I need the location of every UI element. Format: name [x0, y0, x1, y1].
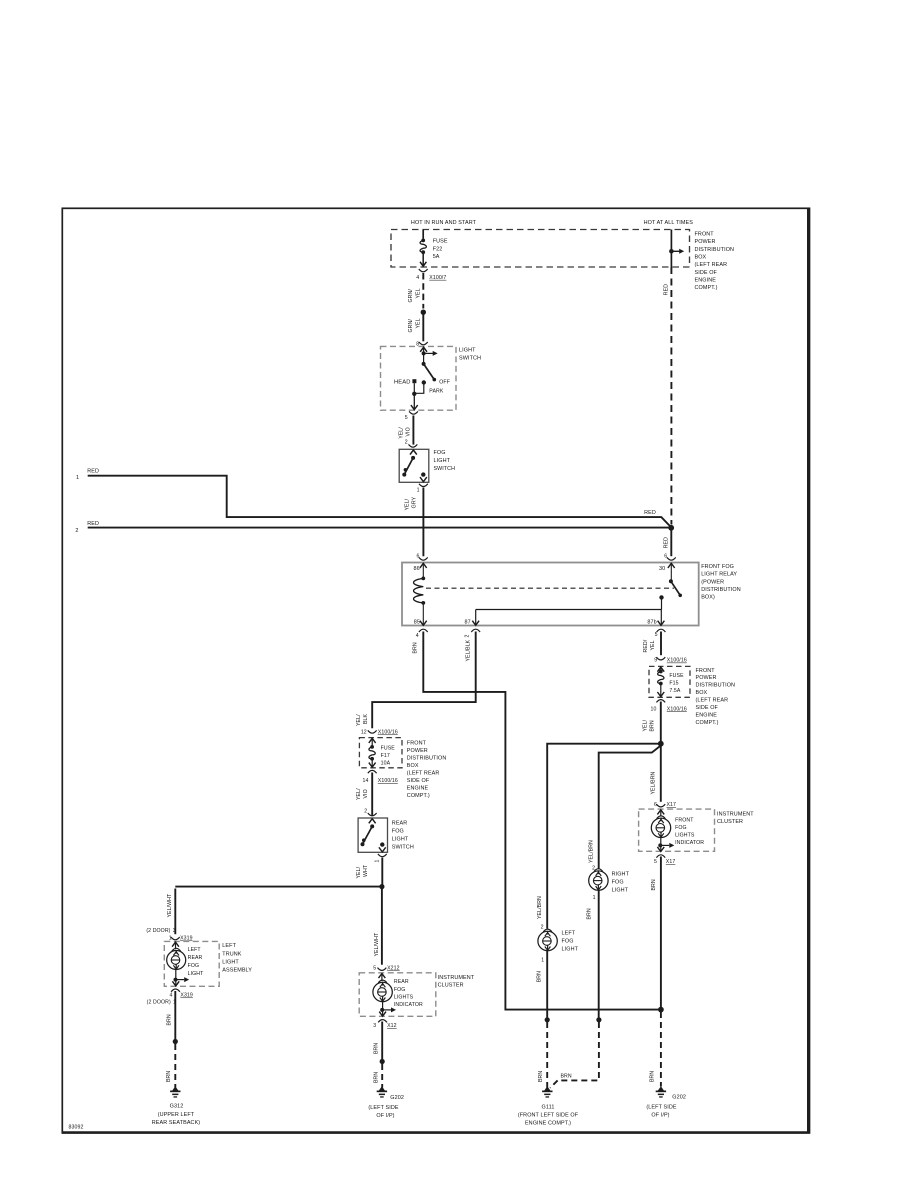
svg-text:GRN/: GRN/	[408, 289, 414, 303]
svg-text:G202: G202	[672, 1095, 686, 1101]
svg-text:5A: 5A	[433, 254, 440, 260]
svg-text:SWITCH: SWITCH	[459, 355, 481, 361]
svg-text:6: 6	[664, 553, 667, 559]
svg-text:87b: 87b	[647, 619, 656, 625]
svg-text:RED/: RED/	[643, 639, 649, 652]
svg-text:RED: RED	[644, 510, 656, 516]
svg-text:COMPT.): COMPT.)	[407, 793, 430, 799]
svg-text:LEFT: LEFT	[222, 943, 236, 949]
svg-text:LIGHT: LIGHT	[562, 947, 579, 953]
svg-text:RED: RED	[664, 537, 670, 548]
svg-text:BRN: BRN	[587, 908, 593, 919]
svg-text:FRONT: FRONT	[696, 668, 716, 674]
svg-text:GRY: GRY	[412, 496, 418, 508]
svg-text:BRN: BRN	[538, 1071, 544, 1082]
svg-text:(2 DOOR): (2 DOOR)	[146, 928, 170, 934]
svg-text:POWER: POWER	[696, 675, 717, 681]
svg-text:(POWER: (POWER	[701, 579, 724, 585]
svg-text:X319: X319	[180, 936, 193, 942]
svg-text:YEL/: YEL/	[398, 427, 404, 439]
svg-text:ASSEMBLY: ASSEMBLY	[222, 968, 252, 974]
svg-text:1: 1	[76, 475, 79, 481]
svg-text:BOX: BOX	[407, 763, 419, 769]
svg-text:BRN: BRN	[650, 1071, 656, 1082]
svg-text:LEFT: LEFT	[188, 947, 202, 953]
svg-text:SWITCH: SWITCH	[434, 466, 456, 472]
svg-text:(FRONT LEFT SIDE OF: (FRONT LEFT SIDE OF	[518, 1112, 579, 1118]
svg-text:INDICATOR: INDICATOR	[394, 1002, 423, 1008]
svg-text:YEL/BRN: YEL/BRN	[651, 771, 657, 794]
svg-text:2: 2	[405, 439, 408, 445]
svg-text:X100/16: X100/16	[378, 778, 398, 784]
svg-text:INSTRUMENT: INSTRUMENT	[717, 811, 754, 817]
svg-text:YEL/WHT: YEL/WHT	[167, 893, 173, 917]
svg-text:LIGHT: LIGHT	[612, 888, 629, 894]
svg-text:DISTRIBUTION: DISTRIBUTION	[407, 755, 447, 761]
svg-text:2: 2	[464, 635, 470, 638]
svg-text:BOX: BOX	[695, 255, 707, 261]
svg-text:(UPPER LEFT: (UPPER LEFT	[158, 1112, 195, 1118]
svg-text:OF I/P): OF I/P)	[651, 1112, 669, 1118]
svg-text:(LEFT REAR: (LEFT REAR	[695, 262, 728, 268]
svg-text:X212: X212	[387, 966, 400, 972]
svg-text:(LEFT SIDE: (LEFT SIDE	[646, 1104, 676, 1110]
svg-text:5: 5	[655, 632, 658, 638]
svg-text:G111: G111	[542, 1104, 555, 1110]
svg-text:HOT IN RUN AND START: HOT IN RUN AND START	[411, 220, 477, 226]
svg-text:RED: RED	[663, 284, 669, 295]
svg-text:86: 86	[414, 566, 420, 572]
svg-text:1: 1	[593, 895, 596, 901]
svg-text:RIGHT: RIGHT	[612, 872, 630, 878]
svg-text:YEL: YEL	[415, 288, 421, 298]
svg-text:DISTRIBUTION: DISTRIBUTION	[696, 683, 736, 689]
svg-text:BRN: BRN	[412, 642, 418, 653]
svg-text:FOG: FOG	[394, 987, 406, 993]
svg-text:2: 2	[75, 528, 78, 534]
svg-text:2: 2	[364, 808, 367, 814]
svg-text:BRN: BRN	[166, 1014, 172, 1025]
svg-text:POWER: POWER	[407, 748, 428, 754]
svg-text:LIGHTS: LIGHTS	[675, 832, 695, 838]
svg-text:COMPT.): COMPT.)	[696, 720, 719, 726]
svg-text:YEL: YEL	[650, 640, 656, 650]
svg-text:1: 1	[417, 488, 420, 494]
svg-text:LIGHT: LIGHT	[222, 959, 239, 965]
svg-text:4: 4	[416, 633, 419, 639]
svg-text:LIGHT: LIGHT	[459, 348, 476, 354]
svg-text:ENGINE: ENGINE	[695, 278, 717, 284]
svg-text:REAR: REAR	[392, 821, 408, 827]
svg-text:HOT AT ALL TIMES: HOT AT ALL TIMES	[644, 220, 694, 226]
svg-text:BRN: BRN	[650, 720, 656, 731]
svg-text:SIDE OF: SIDE OF	[695, 270, 718, 276]
svg-text:CLUSTER: CLUSTER	[438, 983, 464, 989]
svg-text:REAR: REAR	[188, 955, 203, 961]
svg-text:2: 2	[541, 924, 544, 930]
svg-text:TRUNK: TRUNK	[222, 951, 242, 957]
svg-text:10A: 10A	[381, 760, 391, 766]
svg-text:FOG: FOG	[188, 963, 200, 969]
svg-text:FUSE: FUSE	[381, 746, 396, 752]
svg-text:5: 5	[405, 415, 408, 421]
svg-text:87: 87	[465, 619, 471, 625]
svg-text:X100/16: X100/16	[667, 658, 687, 664]
svg-text:1: 1	[541, 958, 544, 964]
svg-text:LIGHT: LIGHT	[392, 837, 409, 843]
svg-text:FRONT FOG: FRONT FOG	[701, 564, 734, 570]
svg-text:LEFT: LEFT	[562, 931, 576, 937]
svg-text:REAR: REAR	[394, 979, 409, 985]
svg-text:30: 30	[659, 566, 665, 572]
svg-text:FUSE: FUSE	[669, 673, 684, 679]
svg-text:VIO: VIO	[363, 789, 369, 798]
svg-text:9: 9	[654, 658, 657, 664]
svg-text:DISTRIBUTION: DISTRIBUTION	[695, 247, 735, 253]
svg-text:X100/7: X100/7	[429, 275, 446, 281]
svg-text:BRN: BRN	[537, 971, 543, 982]
svg-text:F15: F15	[669, 681, 678, 687]
svg-text:BLK: BLK	[363, 713, 369, 724]
svg-text:X12: X12	[387, 1023, 397, 1029]
svg-text:ENGINE: ENGINE	[696, 713, 718, 719]
svg-text:83092: 83092	[69, 1125, 84, 1131]
svg-text:OFF: OFF	[439, 379, 450, 385]
svg-text:INSTRUMENT: INSTRUMENT	[438, 975, 475, 981]
svg-text:YEL/: YEL/	[356, 788, 362, 800]
svg-text:GRN/: GRN/	[408, 319, 414, 333]
svg-text:X100/16: X100/16	[378, 730, 398, 736]
svg-text:WHT: WHT	[363, 864, 369, 877]
svg-text:POWER: POWER	[695, 239, 716, 245]
svg-text:BRN: BRN	[166, 1071, 172, 1082]
svg-text:SWITCH: SWITCH	[392, 845, 414, 851]
svg-text:PARK: PARK	[429, 389, 444, 395]
svg-text:ENGINE: ENGINE	[407, 785, 429, 791]
svg-text:FOG: FOG	[612, 880, 624, 886]
svg-text:F22: F22	[433, 246, 443, 252]
svg-text:LIGHT RELAY: LIGHT RELAY	[701, 572, 737, 578]
svg-text:CLUSTER: CLUSTER	[717, 819, 743, 825]
svg-text:BOX): BOX)	[701, 595, 715, 601]
svg-text:4: 4	[170, 993, 173, 999]
svg-text:1: 1	[374, 860, 380, 863]
svg-text:DISTRIBUTION: DISTRIBUTION	[701, 587, 741, 593]
svg-text:G202: G202	[390, 1095, 404, 1101]
svg-text:FRONT: FRONT	[695, 232, 715, 238]
svg-text:BRN: BRN	[561, 1074, 572, 1080]
svg-text:(LEFT SIDE: (LEFT SIDE	[368, 1105, 398, 1111]
svg-text:SIDE OF: SIDE OF	[696, 705, 719, 711]
svg-text:YEL/: YEL/	[405, 498, 411, 510]
svg-text:FOG: FOG	[434, 450, 446, 456]
svg-text:FRONT: FRONT	[675, 817, 694, 823]
svg-text:7.5A: 7.5A	[669, 688, 681, 694]
svg-text:LIGHT: LIGHT	[434, 458, 451, 464]
svg-text:FOG: FOG	[675, 825, 687, 831]
svg-text:(2 DOOR): (2 DOOR)	[147, 1000, 171, 1006]
svg-text:G312: G312	[170, 1104, 184, 1110]
svg-text:X100/16: X100/16	[667, 706, 687, 712]
svg-text:YEL/BRN: YEL/BRN	[537, 896, 543, 919]
svg-text:85: 85	[414, 619, 420, 625]
svg-text:RED: RED	[87, 521, 99, 527]
svg-text:YEL/: YEL/	[356, 866, 362, 878]
svg-text:F17: F17	[381, 753, 390, 759]
svg-text:HEAD: HEAD	[394, 379, 411, 385]
svg-text:YEL: YEL	[415, 318, 421, 328]
svg-text:YEL/BRN: YEL/BRN	[588, 840, 594, 863]
svg-text:4: 4	[416, 275, 419, 281]
svg-text:FOG: FOG	[562, 939, 574, 945]
svg-text:SIDE OF: SIDE OF	[407, 778, 430, 784]
svg-text:LIGHTS: LIGHTS	[394, 994, 414, 1000]
svg-text:YEL/WHT: YEL/WHT	[374, 932, 380, 956]
svg-text:BOX: BOX	[696, 690, 708, 696]
svg-text:YEL/: YEL/	[356, 714, 362, 726]
svg-text:(LEFT REAR: (LEFT REAR	[696, 698, 729, 704]
svg-text:REAR SEATBACK): REAR SEATBACK)	[152, 1120, 201, 1126]
svg-text:BRN: BRN	[374, 1072, 380, 1083]
svg-text:LIGHT: LIGHT	[188, 971, 205, 977]
svg-text:YEL/: YEL/	[643, 719, 649, 731]
svg-text:X319: X319	[180, 993, 193, 999]
svg-text:RED: RED	[87, 469, 99, 475]
svg-text:3: 3	[373, 1023, 376, 1029]
svg-text:X17: X17	[666, 859, 676, 865]
svg-text:COMPT.): COMPT.)	[695, 285, 718, 291]
svg-text:YEL/BLK: YEL/BLK	[465, 639, 471, 661]
svg-text:FRONT: FRONT	[407, 740, 427, 746]
svg-text:VIO: VIO	[405, 427, 411, 436]
svg-text:3: 3	[173, 928, 176, 934]
svg-text:5: 5	[373, 966, 376, 972]
svg-text:ENGINE COMPT.): ENGINE COMPT.)	[525, 1120, 571, 1126]
svg-text:FOG: FOG	[392, 829, 404, 835]
svg-text:OF I/P): OF I/P)	[376, 1113, 394, 1119]
svg-text:14: 14	[363, 778, 369, 784]
svg-text:12: 12	[361, 730, 367, 736]
svg-text:(LEFT REAR: (LEFT REAR	[407, 770, 440, 776]
svg-text:BRN: BRN	[651, 879, 657, 890]
svg-text:INDICATOR: INDICATOR	[675, 840, 704, 846]
svg-text:X17: X17	[667, 802, 677, 808]
svg-text:FUSE: FUSE	[433, 239, 448, 245]
svg-text:5: 5	[654, 859, 657, 865]
svg-text:BRN: BRN	[374, 1043, 380, 1054]
svg-text:10: 10	[651, 706, 657, 712]
